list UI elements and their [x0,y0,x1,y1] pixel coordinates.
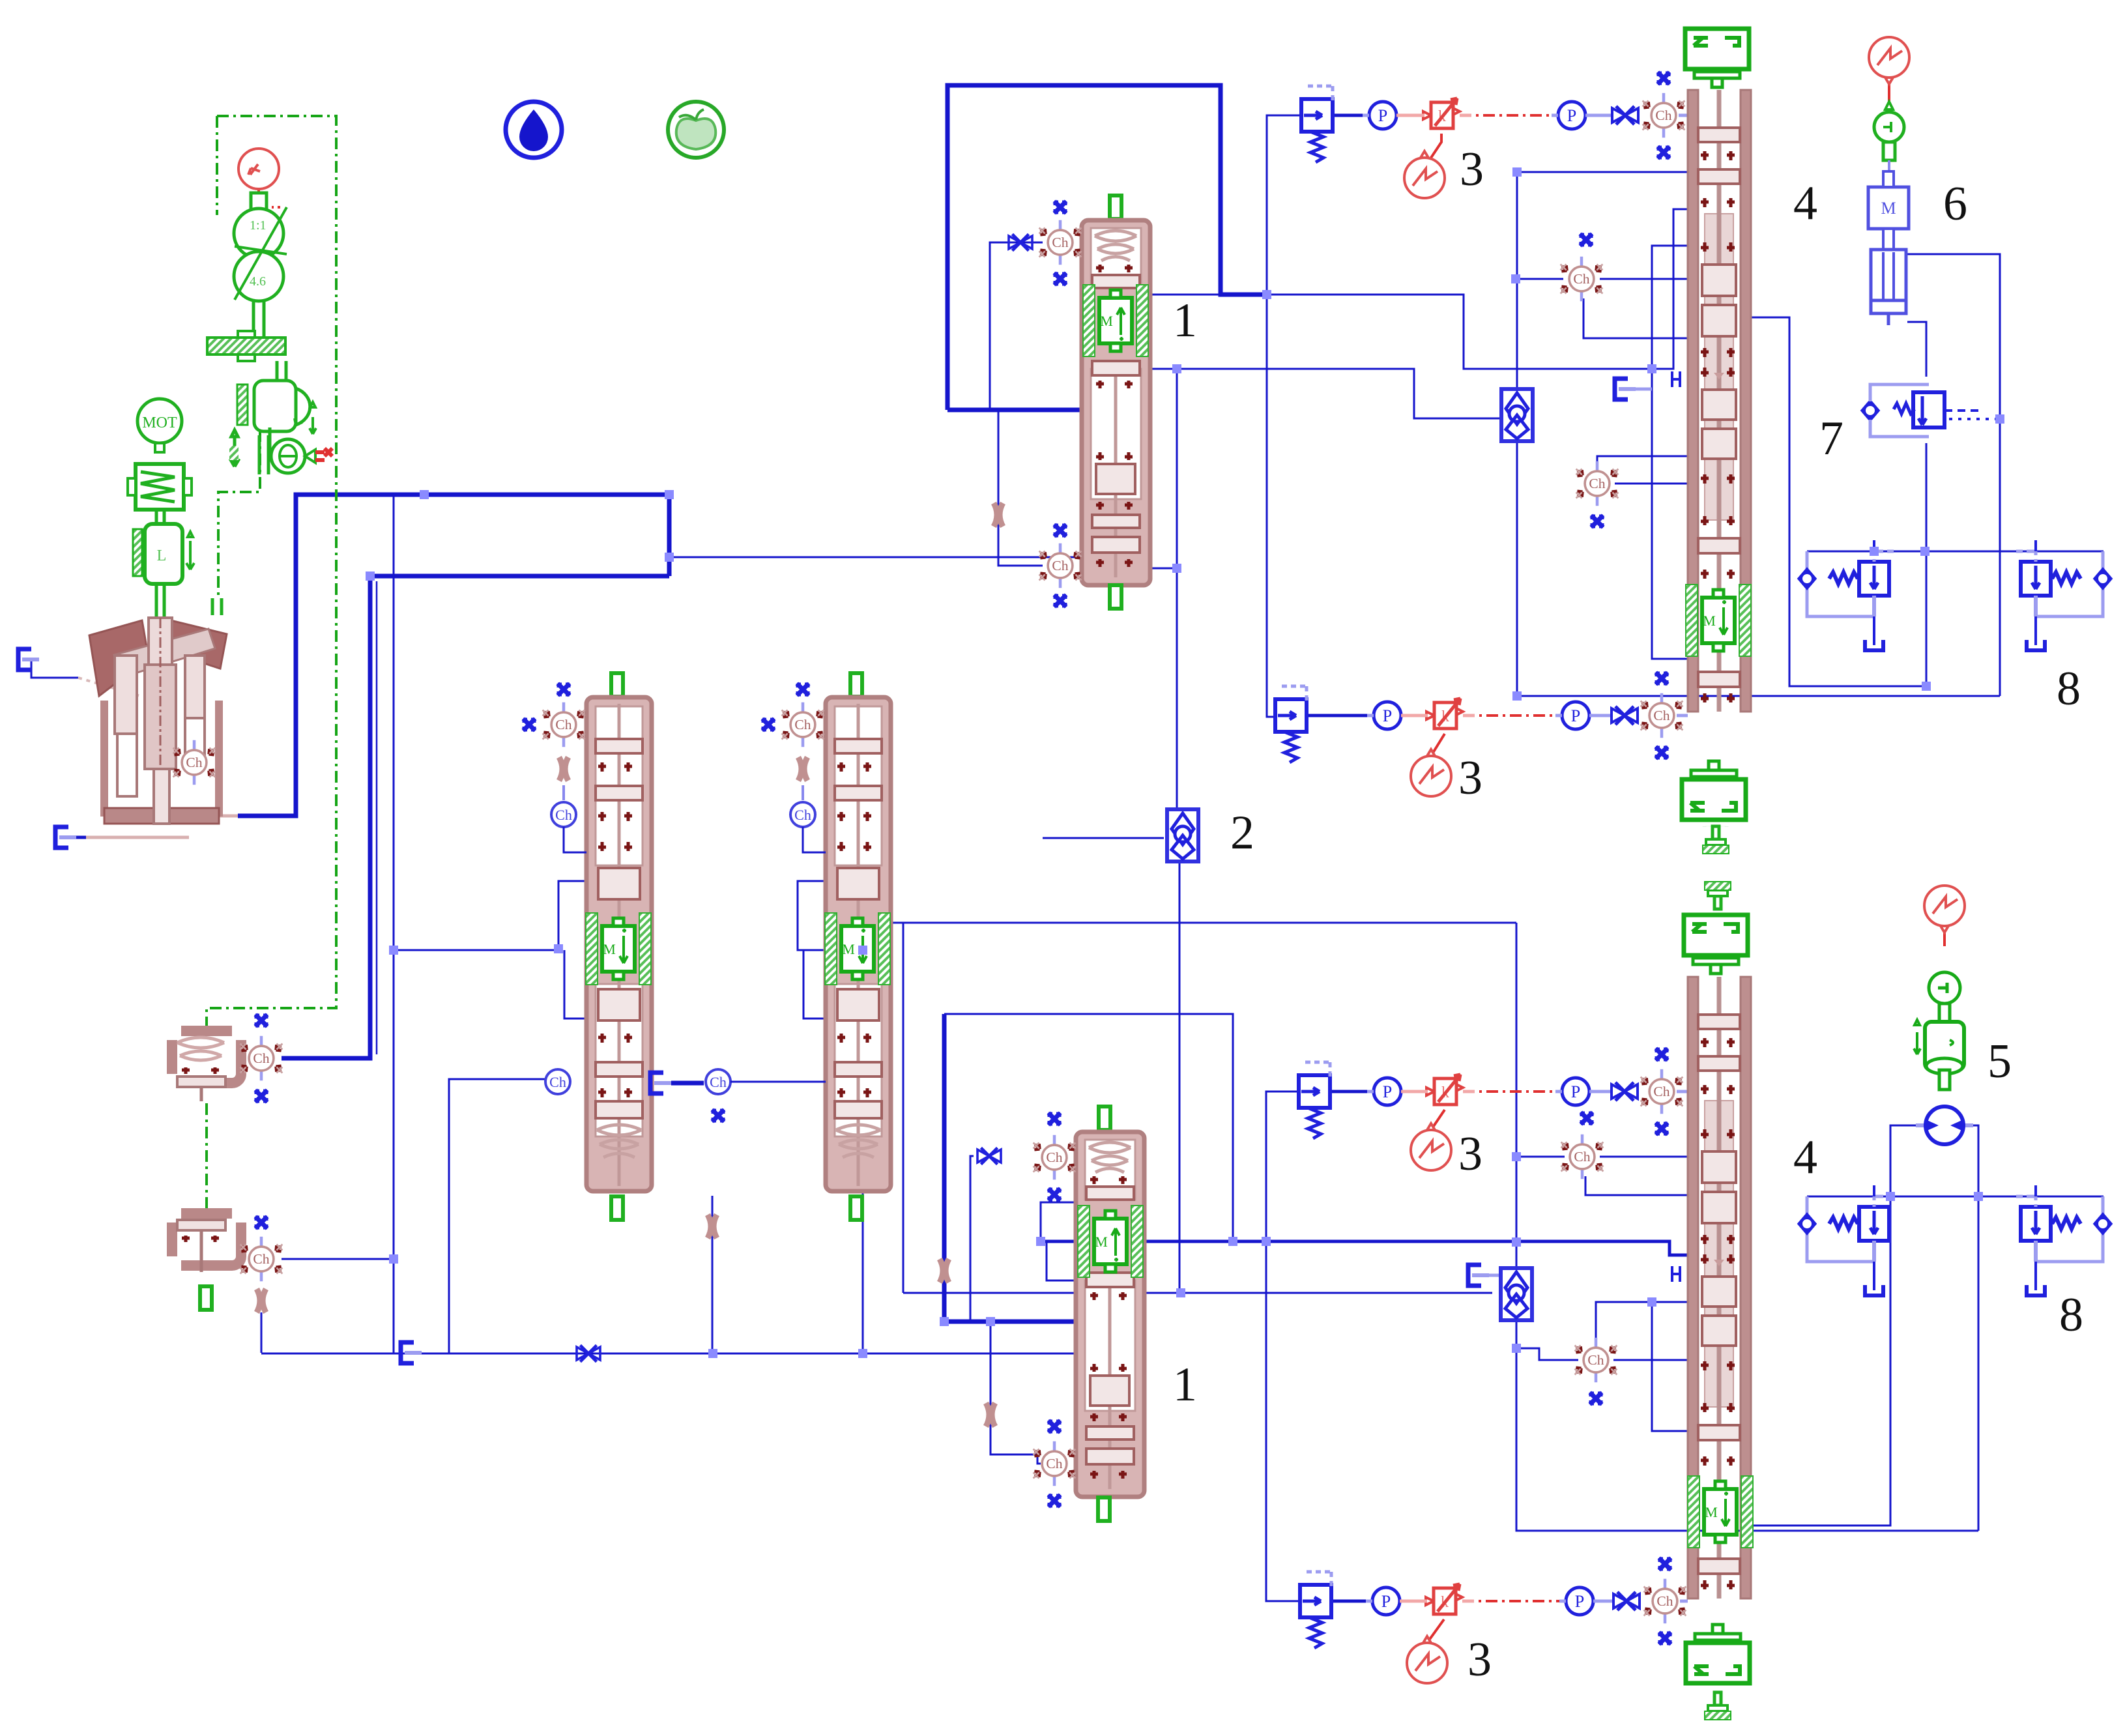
wire: cyl6 top port [1907,254,2000,696]
tank valve4bottom [1468,1265,1489,1286]
wire: bottom filter riser top [1516,923,1518,1269]
filter2 left feed [1043,837,1164,839]
wire: valve1b orifice chain [990,1322,1041,1464]
wire: y1068 long line [1517,695,2000,697]
wire: row4 ch-valve [1680,1600,1688,1603]
x below [255,1090,267,1102]
orifice valve1bottom chain [986,1403,995,1426]
wire: top filter lower riser [1516,441,1518,696]
piston actuator lower [172,1213,241,1272]
wire: relief rows 3-4 riser [1266,1092,1302,1601]
gauge P2 row3 [1555,1078,1596,1105]
wire: staircase to chB' [1516,1348,1578,1360]
wire: valve1 right mid port tap [1151,568,1177,570]
actuator bottom [1686,1625,1750,1683]
mass block valve2mid [825,913,890,985]
wire: vert 2535 [1652,246,1688,659]
gauge P row2 [1367,702,1408,729]
red k top-left stub [259,188,280,207]
wire: chA lower branch [1583,298,1688,338]
water drop icon [506,102,562,158]
valve1bottom body [1076,1132,1144,1497]
orifice valve1top chain [994,503,1003,527]
red dashdot row4 [1462,1600,1561,1602]
coupling hatched bar [207,331,285,361]
wire orifice down-right [261,1312,263,1353]
red valve k row4 [1426,1584,1462,1614]
gauge P row1 [1363,102,1403,129]
ground above [1705,882,1731,909]
wire: LA to valve4 region [1267,209,1688,369]
svg-text:Ch: Ch [710,1074,727,1090]
cap top valve1mid [611,673,623,697]
svg-text:Ch: Ch [794,807,811,823]
left relief block [1799,540,1894,650]
x marks row2 ch [1656,673,1668,684]
wire: valve1b M-feed up [1041,1202,1076,1241]
wire: comp7 bottom riser [1926,443,1928,686]
x above chb [1054,525,1066,536]
cap top [1110,195,1121,219]
mass block valve1mid [586,913,651,985]
chamber Ch valve1bottom bottom [1034,1441,1076,1486]
wire: orifice drop valve1mid [712,1196,714,1353]
wire: M-feed valve2mid lower [803,950,826,1019]
wire: valve1b ch feed [970,1156,974,1322]
elbow blue ch into valve [564,827,586,852]
chamber Ch row4 [1644,1579,1686,1623]
wire: row3 blue segment [1330,1090,1369,1093]
right relief block [2016,540,2111,650]
green connector pair [212,598,222,615]
relief valve row3 [1299,1062,1330,1138]
wire: chB top valve4 [1597,456,1688,467]
wire: row4 blue segment [1331,1600,1369,1603]
x above chA' [1581,1112,1593,1124]
wire: bottom filter to staircase [1516,1320,1978,1531]
slipping clutch cylinder [237,381,316,434]
blue Ch valve1mid top [551,785,576,827]
x valve near 1449 [940,1259,949,1282]
throttle X row2 [1612,706,1638,725]
right relief block [2016,1185,2111,1295]
x below chb2 [1048,1495,1060,1507]
wire: valve1b M-feed down [1047,1241,1076,1280]
x below ch2 [712,1110,724,1121]
wire: valve1 right upper port [1151,294,1221,296]
x below [1054,273,1066,285]
blue Ch valve2mid top [790,785,815,827]
svg-text:4: 4 [1793,177,1817,230]
top filter [1501,389,1533,441]
MOT source [137,399,182,452]
wire: valve4 right side loop [1749,317,1926,686]
red dashdot row2 [1463,714,1557,717]
piston actuator upper [172,1031,241,1101]
chamber Ch row3 [1641,1069,1683,1114]
apple icon [668,102,724,158]
x below chB' [1590,1393,1602,1404]
svg-text:8: 8 [2059,1288,2083,1342]
x marks row1 ch [1658,72,1670,84]
x above piston2 ch [255,1217,267,1228]
wire: valve1 ch feed [990,242,1043,410]
junction nodes [366,167,2004,1358]
x marks row4 ch [1659,1558,1671,1570]
wire: chA top valve4 [1517,278,1563,280]
svg-text:4: 4 [1793,1131,1817,1184]
wire: row3 to valve [1589,1090,1611,1093]
wire: bus 8 blocks top [1807,551,2103,553]
M box cylinder comp6 [1868,171,1909,325]
M port connector valve4 top [1672,371,1680,387]
svg-text:3: 3 [1458,1127,1482,1181]
wire: left loop riser bottom [903,923,904,1293]
gauge P2 row1 [1552,102,1592,129]
gauge P2 row4 [1559,1587,1600,1615]
wire: chA' lower branch [1585,1176,1688,1195]
svg-text:3: 3 [1467,1633,1492,1686]
x below [1048,1189,1060,1200]
wire: row4 riser from y1905 [1265,1092,1267,1241]
ground below [1705,1692,1731,1720]
actuator top [1684,915,1748,974]
tank pump case drain [55,827,76,848]
svg-text:MOT: MOT [142,414,177,431]
wire: row1 blue segment [1333,114,1369,117]
gauge P row4 [1366,1587,1406,1615]
wire: M-feed valve2mid [798,881,863,950]
wire: filter2 string upper [1176,369,1178,809]
relief valve row4 [1300,1572,1331,1648]
wire: row1 to valve [1585,114,1612,117]
wire ch2b to valve2 [730,1081,826,1083]
wire: supply riser to M-feed and piston2 chamber [282,495,394,1259]
svg-text:3: 3 [1458,751,1482,805]
transducer k (red circle) [239,149,279,189]
cap bottom valve1mid [611,1196,623,1220]
svg-text:1: 1 [1173,294,1197,347]
x mark left [523,719,535,731]
tank bottom row [401,1342,422,1363]
valve body middle 1 [586,697,652,1191]
cap below piston2 [200,1286,212,1310]
x throttle left [977,1148,1001,1164]
relief valve row2 [1275,686,1307,762]
thick link tank to ch [671,1081,704,1086]
wire: valve1 top port thick [947,408,1083,412]
wire: row3 ch-valve [1677,1090,1688,1093]
oscillator comp5 [1924,886,1965,933]
pump chamber Ch [173,740,216,785]
wire: row2 ch-valve [1677,714,1688,717]
wire: top filter riser [1516,172,1518,389]
tank stub [1489,1269,1505,1275]
chamber Ch A valve4top [1561,257,1603,301]
green dashdot theta chain [218,430,260,597]
x valve bottom row [577,1345,600,1361]
wire: filter2 string lower [1179,861,1181,1293]
wire: bottom tank row [261,1353,1078,1355]
oscillator row3 [1411,1123,1451,1170]
wire: left drop valve1mid blue ch [449,1079,547,1353]
wire: pump suction dotted [78,678,140,696]
oscillator comp6 [1869,37,1909,84]
wire: y1984 crossing [903,1292,1492,1294]
mass block valve4top [1686,585,1751,656]
comp5 red stub [1943,926,1946,946]
shaft gearbox-coupling [253,301,264,338]
wire: tank stub pump area [31,659,78,678]
chamber Ch piston1 [240,1036,283,1080]
wire: pump5 right port [1963,1125,1978,1531]
orifice under valve1mid [708,1215,717,1238]
wire: row2 to valve [1589,714,1611,717]
gearbox (green double circle) [234,193,287,301]
wire: vert 2535 bottom [1652,1302,1688,1431]
wire: M-feed valve1mid lower [564,950,586,1019]
svg-text:1: 1 [1173,1358,1197,1411]
wire: row2 blue segment [1306,714,1369,717]
wire: row1 ch to valve [1679,114,1688,117]
tank valve4top [1615,379,1636,399]
cap bottom [1098,1497,1110,1521]
valve body middle 2 [826,697,891,1191]
x above [1048,1113,1060,1125]
theta gauge [229,427,332,474]
pale red links [1396,115,1475,1601]
mass block valve4bottom [1688,1476,1753,1548]
wire: pump bottom right pipe [202,816,238,837]
throttle X row4 [1613,1592,1640,1610]
orifice below ch [798,757,807,781]
gauge P2 row2 [1555,702,1596,729]
svg-text:6: 6 [1943,177,1967,231]
wire: M-feed valve1mid [394,881,586,950]
relief valve row1 [1301,86,1333,162]
chamber Ch valve1top bottom [1039,543,1082,588]
x mark above [558,684,570,695]
wire: chA' feed [1516,1156,1565,1158]
valve1top body [1082,220,1150,585]
wire: right riser to loop line [863,923,1516,1353]
chamber Ch B valve4top [1576,461,1619,506]
wire: bus y855 to valve1 top left [669,557,1083,558]
throttle X row1 [1612,106,1638,124]
pump circle comp5 [1916,1107,1973,1144]
wire: y566 to vert2535 junction [1652,368,1673,370]
x mark left [762,719,774,731]
wire: loop top valve1b [944,1014,1233,1241]
x above chA [1580,234,1592,246]
red valve k row2 [1426,699,1463,729]
chamber Ch valve1bottom top [1034,1135,1076,1179]
mass block valve1top [1083,285,1148,356]
chamber Ch row2 [1641,693,1683,738]
spring damper box [128,464,192,524]
blue Ch valve1mid bottom [545,1069,570,1094]
chamber Ch valve2mid [782,702,824,747]
mass block valve1bottom [1078,1206,1143,1277]
svg-text:Ch: Ch [555,807,572,823]
wire: cyl6 bottom port [1907,322,1926,377]
wire: bus 8 blocks bottom [1807,1196,2103,1198]
comp6 red-green stub [1888,78,1890,104]
left relief block [1799,1185,1894,1295]
tank pump suction [18,649,39,670]
blue Ch valve2mid bottom [706,1069,730,1094]
wire: thin companion line [376,581,378,1054]
cap top valve2mid [850,673,862,697]
chamber Ch valve1top [1039,220,1082,265]
red dashdot row3 [1463,1090,1557,1093]
svg-text:5: 5 [1988,1035,2012,1088]
M port connector valve4 bottom [1672,1266,1680,1282]
wire: pump tank bottom stub [68,836,86,839]
orifice below piston2 ch [257,1289,266,1312]
svg-text:L: L [157,547,167,564]
oscillator row4 [1407,1636,1447,1683]
x mark above [797,684,809,695]
x below chb [1054,595,1066,607]
comp7 pilot dotted [1940,418,2000,420]
x above chb2 [1048,1421,1060,1432]
wire: tank to vert2535 [1629,388,1652,391]
svg-text:7: 7 [1819,412,1843,465]
red valve k row3 [1426,1075,1463,1105]
wire: loop left valve1b [944,1014,1083,1322]
actuator bottom [1682,761,1746,820]
wire: thick bus to piston1 chamber [282,576,669,1058]
chamber Ch valve1mid [543,702,585,747]
x marks row3 ch [1656,1049,1668,1060]
wire: chA' to valve [1600,1156,1688,1158]
wire: valve1 orifice chain [998,410,1043,566]
svg-text:1:1: 1:1 [250,218,267,233]
green dashdot left edge [216,116,218,215]
oscillator row1 [1404,151,1445,198]
wire: pump outlet to main bus [238,495,669,816]
wire: relief rows 1-2 riser [1267,115,1301,717]
wire: chB to valve [1615,483,1688,485]
svg-text:3: 3 [1460,143,1484,196]
chamber Ch A valve4bottom [1561,1135,1604,1179]
bottom filter [1501,1268,1532,1320]
wire: chA to valve [1600,278,1688,280]
clutch shaft [277,361,286,381]
wire: pump bottom left pipe [86,836,189,839]
cap bottom [1110,585,1121,609]
chamber Ch piston2 [240,1237,283,1281]
x above [255,1015,267,1026]
clutch L block [133,524,194,616]
x above [1054,201,1066,213]
orifice below ch [559,757,568,781]
wire: pump5 left port [1749,1125,1925,1526]
ground below [1703,826,1729,827]
wire: chB' to valve [1613,1359,1688,1361]
cap top [1099,1107,1110,1130]
chamber Ch B valve4bottom [1575,1338,1617,1382]
motor comp5 [1914,972,1964,1090]
svg-text:8: 8 [2057,662,2081,716]
cap bottom valve2mid [850,1196,862,1220]
x throttle left [1009,234,1032,250]
wire: valve1 top thick loop [947,85,1267,410]
valve4 bottom body [1688,977,1751,1599]
green dashdot piston link [205,1103,208,1214]
elbow blue ch into valve2 [803,827,826,852]
T gauge comp6 [1874,102,1904,173]
svg-text:4.6: 4.6 [250,274,266,289]
tank between valves [650,1073,671,1093]
axial piston pump [89,618,227,824]
red dashdot row1 [1460,114,1554,117]
green dashdot box [207,116,336,1031]
actuator top [1685,29,1749,87]
x below chB [1591,515,1603,527]
red valve k row1 [1423,98,1460,128]
red osc stubs rows [1431,134,1441,158]
valve4 top body [1688,90,1751,712]
wire: chB' top to valve [1596,1302,1688,1342]
wire: row4 to valve [1593,1600,1615,1603]
wire: crossing line valve1 to filters [1086,369,1500,418]
chamber Ch row1 [1643,93,1685,137]
throttle X row3 [1612,1082,1638,1101]
wire: bottom main y1906 [1039,1241,1688,1255]
oscillator row2 [1411,749,1451,796]
svg-text:Ch: Ch [549,1074,566,1090]
wire: riser x630 to tank row [393,1259,395,1353]
svg-text:2: 2 [1230,806,1254,860]
wire: y264 into valve4 [1517,171,1688,173]
gauge P row3 [1367,1078,1408,1105]
